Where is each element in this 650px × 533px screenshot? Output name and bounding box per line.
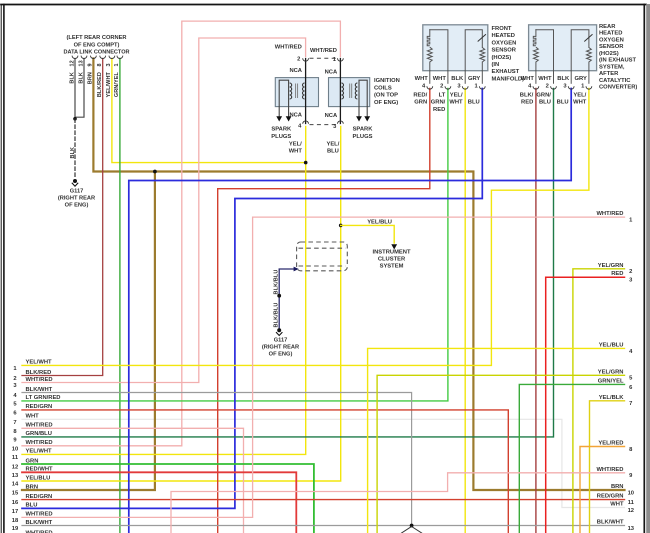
svg-text:2: 2 <box>440 84 443 90</box>
svg-text:(IN: (IN <box>492 62 500 68</box>
svg-text:(LEFT REAR CORNER: (LEFT REAR CORNER <box>66 35 126 41</box>
svg-text:2: 2 <box>546 84 549 90</box>
svg-text:WHT/RED: WHT/RED <box>596 211 623 217</box>
svg-text:(ON TOP: (ON TOP <box>374 93 398 99</box>
svg-text:12: 12 <box>12 465 18 471</box>
svg-text:YEL/BLU: YEL/BLU <box>26 475 51 481</box>
svg-text:18: 18 <box>12 518 19 524</box>
svg-text:WHT: WHT <box>433 76 447 82</box>
svg-text:RED/: RED/ <box>413 92 427 98</box>
svg-text:SENSOR: SENSOR <box>599 44 624 50</box>
svg-text:BLU: BLU <box>468 100 480 106</box>
svg-text:2: 2 <box>297 57 300 63</box>
svg-text:RED/GRN: RED/GRN <box>26 404 53 410</box>
svg-text:(IN EXHAUST: (IN EXHAUST <box>599 58 636 64</box>
svg-text:RED/WHT: RED/WHT <box>26 467 54 473</box>
svg-text:WHT: WHT <box>573 100 587 106</box>
svg-text:BLU: BLU <box>26 503 38 509</box>
svg-text:YEL/RED: YEL/RED <box>598 441 623 447</box>
svg-text:13: 13 <box>78 60 84 66</box>
svg-text:YEL/: YEL/ <box>326 142 339 148</box>
svg-text:NCA: NCA <box>325 113 338 119</box>
svg-text:BLU: BLU <box>327 149 339 155</box>
svg-text:BLK: BLK <box>557 76 570 82</box>
svg-text:DATA LINK CONNECTOR: DATA LINK CONNECTOR <box>63 50 129 56</box>
svg-text:2: 2 <box>629 269 632 275</box>
svg-text:NCA: NCA <box>289 112 302 118</box>
svg-text:(HO2S): (HO2S) <box>599 51 619 57</box>
svg-text:YEL/GRN: YEL/GRN <box>598 369 624 375</box>
svg-text:YEL/WHT: YEL/WHT <box>106 71 112 97</box>
svg-text:OF ENG): OF ENG) <box>269 352 293 358</box>
svg-text:14: 14 <box>12 482 19 488</box>
svg-text:REAR: REAR <box>599 24 616 30</box>
svg-text:LT GRN/RED: LT GRN/RED <box>26 395 61 401</box>
svg-text:GRY: GRY <box>575 76 587 82</box>
svg-text:BLK/BLU: BLK/BLU <box>273 270 279 295</box>
svg-text:SYSTEM,: SYSTEM, <box>599 64 625 70</box>
svg-text:LT: LT <box>439 92 446 98</box>
svg-text:16: 16 <box>12 500 19 506</box>
svg-text:BLK: BLK <box>70 147 76 159</box>
svg-text:CLUSTER: CLUSTER <box>378 256 406 262</box>
svg-text:NCA: NCA <box>289 68 302 74</box>
svg-text:BLK/RED: BLK/RED <box>26 370 52 376</box>
svg-text:YEL/GRN: YEL/GRN <box>598 263 624 269</box>
svg-text:WHT/RED: WHT/RED <box>310 48 337 54</box>
svg-text:GRN/: GRN/ <box>431 100 446 106</box>
svg-text:10: 10 <box>12 446 18 452</box>
svg-text:G117: G117 <box>70 189 84 195</box>
svg-text:8: 8 <box>97 63 103 66</box>
svg-text:BLK: BLK <box>451 76 464 82</box>
svg-text:GRN/YEL: GRN/YEL <box>114 71 120 97</box>
svg-text:OF ENG): OF ENG) <box>374 100 398 106</box>
svg-text:OF ENG COMPT): OF ENG COMPT) <box>74 42 120 48</box>
svg-text:WHT: WHT <box>538 76 552 82</box>
svg-text:BRN: BRN <box>611 484 624 490</box>
svg-text:OF ENG): OF ENG) <box>65 203 89 209</box>
svg-text:11: 11 <box>628 500 635 506</box>
svg-text:WHT/RED: WHT/RED <box>275 44 302 50</box>
svg-text:G117: G117 <box>274 337 288 343</box>
svg-text:11: 11 <box>12 455 19 461</box>
svg-text:10: 10 <box>628 490 634 496</box>
svg-text:BRN: BRN <box>26 484 39 490</box>
svg-text:IGNITION: IGNITION <box>374 78 400 84</box>
svg-text:CATALYTIC: CATALYTIC <box>599 78 631 84</box>
svg-text:BRN: BRN <box>88 72 94 84</box>
svg-text:BLK/RED: BLK/RED <box>97 72 103 97</box>
svg-text:3: 3 <box>106 63 112 66</box>
svg-text:WHT/RED: WHT/RED <box>26 377 53 383</box>
svg-text:HEATED: HEATED <box>492 33 515 39</box>
svg-text:COILS: COILS <box>374 85 392 91</box>
svg-text:GRN: GRN <box>26 458 39 464</box>
svg-text:9: 9 <box>88 63 94 66</box>
svg-text:WHT/RED: WHT/RED <box>26 423 53 429</box>
svg-text:RED: RED <box>521 100 533 106</box>
svg-text:NCA: NCA <box>325 69 338 75</box>
svg-text:7: 7 <box>13 420 16 426</box>
svg-text:EXHAUST: EXHAUST <box>492 69 520 75</box>
svg-text:15: 15 <box>12 491 19 497</box>
svg-text:GRN/: GRN/ <box>536 92 551 98</box>
svg-text:13: 13 <box>628 526 635 532</box>
svg-text:2: 2 <box>13 376 16 382</box>
svg-text:HEATED: HEATED <box>599 31 622 37</box>
svg-text:YEL/BLU: YEL/BLU <box>367 219 392 225</box>
svg-text:19: 19 <box>12 526 19 532</box>
svg-text:GRY: GRY <box>468 76 480 82</box>
svg-text:AFTER: AFTER <box>599 71 619 77</box>
svg-text:OXYGEN: OXYGEN <box>599 37 624 43</box>
svg-text:(HO2S): (HO2S) <box>492 55 512 61</box>
svg-text:SPARK: SPARK <box>353 127 374 133</box>
svg-text:GRN/YEL: GRN/YEL <box>598 378 624 384</box>
svg-text:OXYGEN: OXYGEN <box>492 40 517 46</box>
svg-text:RED/GRN: RED/GRN <box>26 494 53 500</box>
svg-text:BLK/WHT: BLK/WHT <box>26 387 53 393</box>
svg-text:YEL/: YEL/ <box>450 92 463 98</box>
svg-text:WHT/RED: WHT/RED <box>26 512 53 518</box>
svg-text:WHT: WHT <box>415 76 429 82</box>
svg-text:WHT/RED: WHT/RED <box>596 467 623 473</box>
svg-text:BLU: BLU <box>557 100 569 106</box>
svg-text:INSTRUMENT: INSTRUMENT <box>373 249 411 255</box>
svg-text:BLK/WHT: BLK/WHT <box>597 520 624 526</box>
svg-text:YEL/WHT: YEL/WHT <box>26 360 53 366</box>
svg-text:BLK: BLK <box>78 72 84 84</box>
svg-text:YEL/BLU: YEL/BLU <box>599 342 624 348</box>
svg-text:WHT/RED: WHT/RED <box>26 440 53 446</box>
svg-text:GRN: GRN <box>414 100 427 106</box>
svg-text:WHT: WHT <box>449 100 463 106</box>
svg-text:PLUGS: PLUGS <box>271 134 291 140</box>
svg-text:WHT: WHT <box>26 414 40 420</box>
svg-text:RED/GRN: RED/GRN <box>597 494 624 500</box>
svg-text:BLU: BLU <box>539 100 551 106</box>
svg-text:PLUGS: PLUGS <box>353 134 373 140</box>
svg-text:WHT: WHT <box>521 76 535 82</box>
svg-text:BLK: BLK <box>69 72 75 84</box>
svg-text:SPARK: SPARK <box>271 127 292 133</box>
svg-text:12: 12 <box>628 508 634 514</box>
svg-text:YEL/BLK: YEL/BLK <box>599 395 625 401</box>
svg-text:7: 7 <box>629 401 632 407</box>
svg-text:YEL/: YEL/ <box>289 142 302 148</box>
svg-text:YEL/WHT: YEL/WHT <box>26 449 53 455</box>
svg-text:SYSTEM: SYSTEM <box>380 264 404 270</box>
svg-text:13: 13 <box>12 473 19 479</box>
svg-text:CONVERTER): CONVERTER) <box>599 84 637 90</box>
svg-text:12: 12 <box>69 60 75 66</box>
svg-text:BLK/BLU: BLK/BLU <box>273 303 279 328</box>
svg-text:SENSOR: SENSOR <box>492 48 517 54</box>
svg-text:RED: RED <box>611 271 623 277</box>
svg-text:17: 17 <box>12 509 18 515</box>
svg-text:(RIGHT REAR: (RIGHT REAR <box>262 345 299 351</box>
svg-text:YEL/: YEL/ <box>573 92 586 98</box>
svg-text:(RIGHT REAR: (RIGHT REAR <box>58 196 95 202</box>
svg-text:BLK/WHT: BLK/WHT <box>26 520 53 526</box>
svg-text:WHT: WHT <box>610 502 624 508</box>
svg-text:BLK/: BLK/ <box>520 92 534 98</box>
svg-text:GRN/BLU: GRN/BLU <box>26 431 52 437</box>
svg-text:WHT: WHT <box>289 149 303 155</box>
svg-text:MANIFOLD): MANIFOLD) <box>492 76 525 82</box>
svg-text:RED: RED <box>433 107 445 113</box>
svg-text:1: 1 <box>114 63 120 66</box>
svg-text:FRONT: FRONT <box>492 26 512 32</box>
